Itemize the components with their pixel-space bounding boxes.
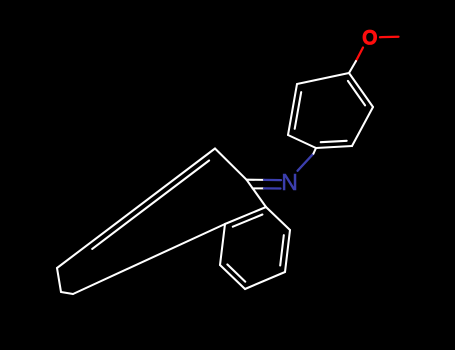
bottom ring edge B2-B3: [285, 230, 290, 272]
bond C1=N second line white half: [253, 187, 265, 189]
bond C1-B1: [247, 180, 267, 207]
bottom ring edge B5-B6: [220, 224, 225, 265]
tip bond Pt-P2: [61, 292, 73, 294]
inner line of Va-P1: [92, 161, 209, 249]
bottom ring edge B3-B4: [245, 272, 285, 289]
bottom ring edge B6-B1: [225, 207, 266, 224]
top ring edge R4-R5: [288, 135, 316, 148]
tip bond P1-Pt: [57, 268, 61, 292]
bond O-ring white half: [349, 61, 356, 73]
bond C1=N second line blue half: [264, 187, 281, 189]
top ring edge R2-R3: [352, 107, 373, 146]
bond C1=N main white half: [247, 179, 265, 181]
bottom ring double bond inner B4-B5: [227, 264, 245, 281]
atom O label: [362, 26, 377, 50]
top ring double bond inner R5-R6: [295, 92, 302, 129]
long bond Va-P1: [57, 149, 215, 269]
bond N-ring blue half: [298, 154, 314, 171]
bond O-ring red half: [356, 48, 363, 62]
top ring edge R6-R1: [297, 73, 349, 84]
svg-text:O: O: [362, 26, 377, 50]
bottom ring double bond inner B2-B3: [280, 235, 284, 265]
atom N label: [281, 169, 298, 195]
svg-text:N: N: [281, 169, 298, 195]
top ring double bond inner R3-R4: [321, 141, 347, 142]
bottom ring double bond inner B6-B1: [233, 215, 263, 227]
bottom ring edge B1-B2: [266, 207, 290, 230]
bond C1=N main blue half: [264, 179, 281, 181]
bottom ring edge B4-B5: [220, 265, 245, 289]
top ring edge R1-R2: [349, 73, 373, 107]
bond O-CH3 (methyl): [380, 36, 399, 39]
bond N-ring white half: [313, 148, 316, 154]
bond C1-Va: [215, 149, 247, 180]
top ring edge R5-R6: [288, 84, 297, 135]
top ring double bond inner R1-R2: [348, 81, 365, 106]
top ring edge R3-R4: [316, 146, 352, 148]
long bond P2-B6: [73, 224, 225, 294]
